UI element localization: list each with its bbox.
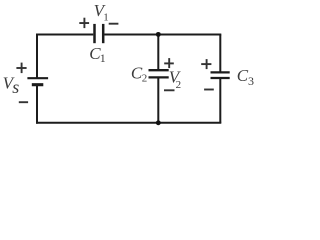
capacitor C2 plates	[149, 70, 169, 77]
plus sign of Vs	[16, 63, 26, 74]
junction node bottom	[156, 120, 161, 125]
wire top right segment	[104, 34, 221, 36]
wire bottom	[36, 122, 221, 124]
wire middle vertical upper	[157, 35, 159, 71]
minus sign of Vs	[19, 101, 28, 103]
capacitor C3 plates	[211, 72, 230, 78]
svg-text:2: 2	[176, 79, 182, 91]
plus sign of V1	[79, 18, 89, 28]
capacitor C1 plates	[95, 24, 104, 43]
svg-text:1: 1	[100, 51, 106, 65]
minus sign of V1	[109, 23, 119, 25]
wire middle vertical lower	[157, 77, 159, 122]
svg-text:s: s	[12, 77, 19, 97]
wire top left segment	[36, 34, 93, 36]
wire left vertical upper	[36, 34, 38, 79]
plus sign of C3	[201, 59, 211, 69]
svg-text:3: 3	[248, 74, 254, 88]
wire left vertical lower	[36, 86, 38, 124]
wire right vertical lower	[219, 78, 221, 123]
wire right vertical upper	[219, 35, 221, 73]
svg-text:2: 2	[142, 72, 148, 84]
svg-text:C: C	[237, 66, 249, 85]
voltage source Vs battery plates	[27, 78, 48, 85]
plus sign of V2	[164, 58, 174, 68]
junction node top	[156, 32, 161, 37]
minus sign of V2	[164, 89, 175, 91]
svg-text:1: 1	[103, 12, 109, 24]
minus sign of C3	[204, 89, 214, 91]
